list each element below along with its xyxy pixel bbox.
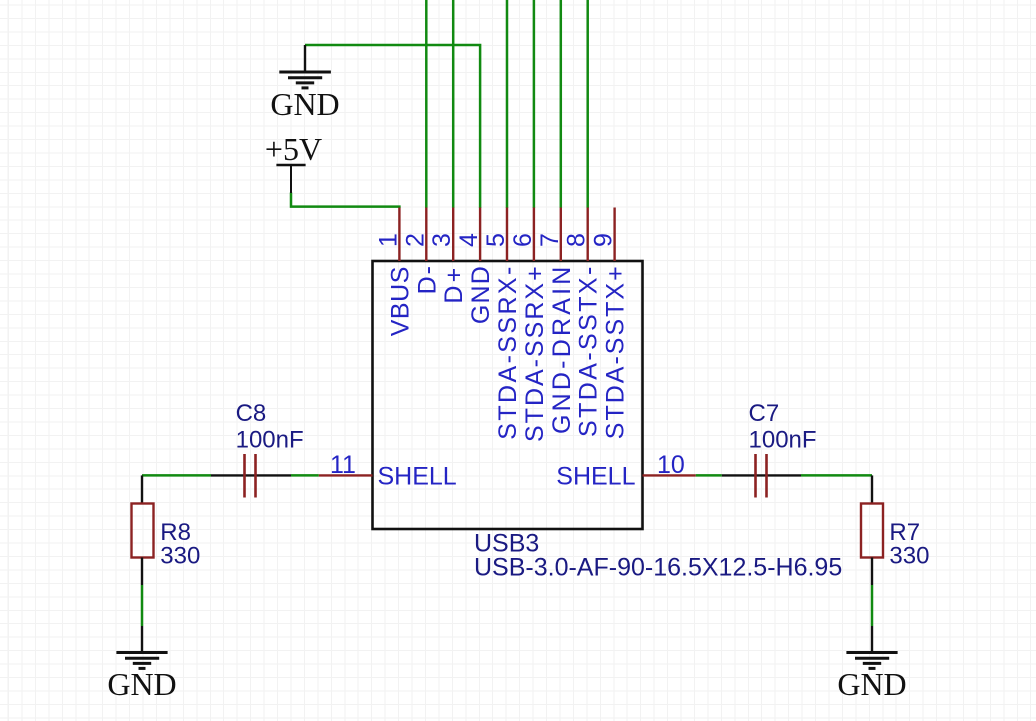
svg-text:GND: GND — [837, 666, 906, 702]
pin 2 stub — [425, 208, 427, 262]
svg-text:11: 11 — [330, 451, 356, 479]
pin 7 stub — [560, 208, 562, 262]
ground GND bottom-right — [846, 626, 897, 668]
pin 10 stub — [643, 474, 696, 476]
wire: green vertical to pin 2 — [425, 0, 428, 208]
wire segment: left net green — [142, 474, 211, 477]
svg-text:5: 5 — [482, 233, 510, 247]
pin 3 stub — [452, 208, 454, 262]
pin 8 stub — [587, 208, 589, 262]
svg-text:GND-DRAIN: GND-DRAIN — [548, 264, 576, 434]
wire segment: C7 leads black — [722, 474, 801, 476]
wire: green vertical to pin 8 — [586, 0, 589, 208]
svg-text:GND: GND — [467, 265, 495, 324]
wire: green vertical to pin 5 — [506, 0, 509, 208]
wire segment: corner down to R7 — [871, 475, 873, 503]
wire segment: corner down to R8 — [141, 475, 143, 503]
svg-text:100nF: 100nF — [236, 426, 304, 453]
svg-text:C7: C7 — [749, 400, 780, 427]
svg-text:6: 6 — [509, 233, 537, 247]
svg-text:+5V: +5V — [265, 131, 322, 167]
power flag +5V bar — [276, 165, 305, 193]
wire segment: C8 leads black — [211, 474, 291, 476]
ground GND top — [279, 45, 331, 88]
wire: green vertical to pin 7 — [560, 0, 563, 208]
svg-text:STDA-SSRX+: STDA-SSRX+ — [521, 264, 549, 442]
wire: GND net to pin 4 — [305, 45, 480, 208]
pin 4 stub — [479, 208, 481, 262]
svg-text:330: 330 — [889, 543, 929, 570]
wire: green vertical to pin 6 — [533, 0, 536, 208]
resistor R8 — [132, 504, 154, 558]
ground GND bottom-left — [116, 626, 167, 668]
svg-text:1: 1 — [374, 233, 402, 247]
wire segment: C7 to corner green — [801, 474, 872, 477]
pin 1 stub — [398, 208, 400, 262]
svg-text:USB-3.0-AF-90-16.5X12.5-H6.95: USB-3.0-AF-90-16.5X12.5-H6.95 — [474, 554, 842, 582]
wire segment: pin 10 to C7 green — [696, 474, 722, 477]
svg-text:GND: GND — [107, 666, 176, 702]
svg-text:STDA-SSTX-: STDA-SSTX- — [575, 264, 603, 437]
wire segment: C8 to pin 11 green — [291, 474, 319, 477]
svg-text:2: 2 — [401, 233, 429, 247]
wire segment: R7 to ground green — [871, 585, 874, 626]
svg-text:SHELL: SHELL — [556, 463, 635, 491]
connector U1 box USB3 — [373, 261, 643, 529]
wire: green vertical to pin 3 — [452, 0, 455, 208]
svg-text:STDA-SSRX-: STDA-SSRX- — [494, 264, 522, 439]
svg-text:7: 7 — [536, 233, 564, 247]
svg-text:10: 10 — [657, 451, 685, 479]
svg-text:9: 9 — [590, 233, 618, 247]
pin 5 stub — [506, 208, 508, 262]
svg-text:D+: D+ — [440, 265, 468, 304]
pin 11 stub — [319, 474, 373, 476]
svg-text:GND: GND — [270, 86, 339, 122]
svg-text:4: 4 — [455, 233, 483, 247]
svg-text:VBUS: VBUS — [386, 266, 414, 336]
svg-text:C8: C8 — [236, 400, 267, 427]
wire segment: R8 to ground green — [141, 585, 144, 626]
wire segment: R8 lower lead black — [141, 558, 143, 586]
svg-text:3: 3 — [428, 233, 456, 247]
svg-text:SHELL: SHELL — [378, 463, 457, 491]
resistor R7 — [861, 504, 883, 558]
svg-text:STDA-SSTX+: STDA-SSTX+ — [602, 264, 630, 439]
capacitor C7 — [754, 454, 757, 498]
pin 6 stub — [533, 208, 535, 262]
wire: +5V net to pin 1 — [291, 193, 399, 209]
svg-text:8: 8 — [563, 233, 591, 247]
wire segment: R7 lower lead black — [871, 558, 873, 586]
capacitor C8 — [243, 454, 246, 498]
svg-text:D-: D- — [413, 264, 441, 294]
svg-text:100nF: 100nF — [749, 426, 817, 453]
svg-text:330: 330 — [160, 543, 200, 570]
pin 9 stub — [613, 208, 615, 262]
